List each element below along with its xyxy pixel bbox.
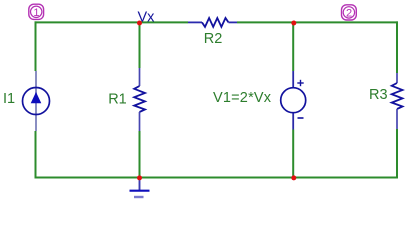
- resistor R1: [134, 68, 145, 131]
- svg-text:1: 1: [33, 7, 39, 19]
- node 2 bubble: [342, 5, 357, 20]
- ground: [130, 178, 150, 197]
- current source I1: [23, 71, 50, 131]
- resistor R2: [188, 18, 237, 27]
- junction V1 bottom (red dot): [291, 175, 296, 180]
- plus sign of V1: [297, 80, 303, 86]
- resistor R3: [392, 73, 403, 129]
- wire V1 branch upper: [292, 22, 294, 71]
- junction node Vx (red dot): [137, 21, 142, 26]
- svg-text:I1: I1: [3, 91, 15, 107]
- svg-text:2: 2: [346, 8, 352, 20]
- svg-text:R1: R1: [108, 92, 127, 108]
- junction node 2 top (red dot): [291, 21, 296, 26]
- wire middle branch lower (R1 to ground node): [139, 131, 141, 178]
- wire left branch upper: [35, 21, 37, 71]
- svg-text:R3: R3: [369, 87, 388, 103]
- wire top-left segment: [35, 21, 189, 23]
- wire V1 branch lower: [292, 130, 294, 179]
- wire right branch lower: [396, 129, 398, 178]
- wire bottom segment: [35, 177, 399, 179]
- svg-text:Vx: Vx: [138, 10, 156, 26]
- wire right branch upper: [396, 21, 398, 73]
- minus sign of V1: [298, 117, 304, 119]
- svg-text:R2: R2: [204, 31, 223, 47]
- node 1 bubble: [29, 4, 44, 19]
- wire top-right segment: [237, 21, 398, 23]
- dependent voltage source V1: [281, 71, 306, 130]
- wire middle branch upper (node Vx to R1): [139, 22, 141, 68]
- wire left branch lower: [35, 131, 37, 178]
- junction ground node (red dot): [137, 175, 142, 180]
- svg-text:V1=2*Vx: V1=2*Vx: [213, 90, 272, 106]
